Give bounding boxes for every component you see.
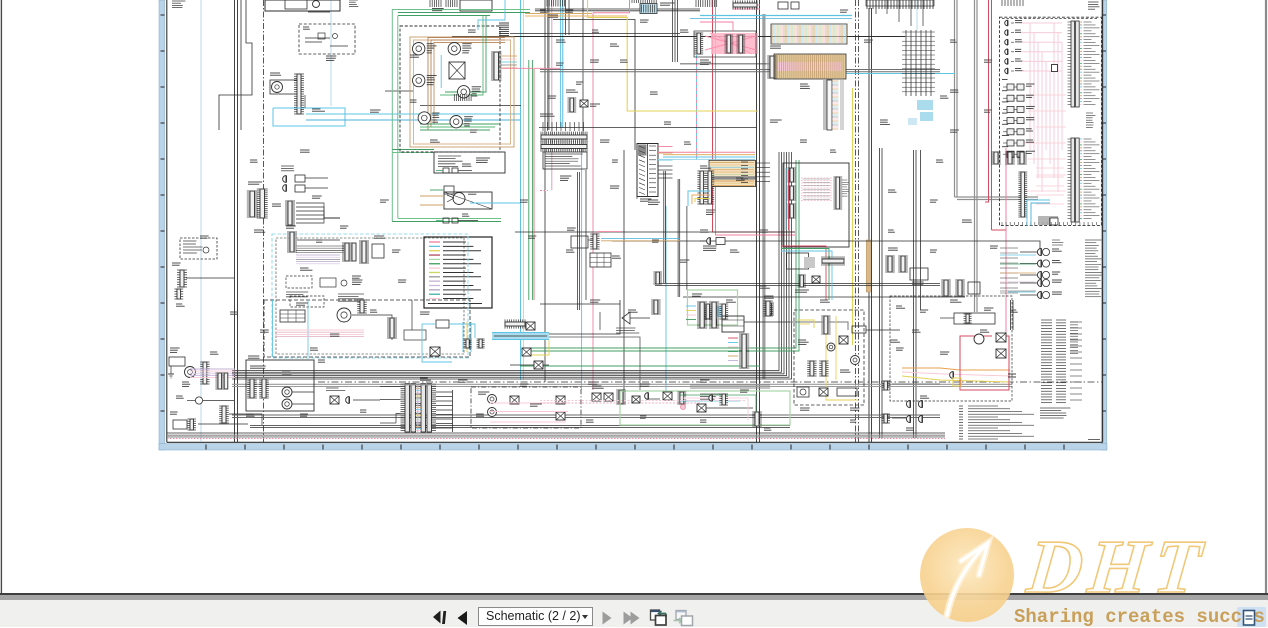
wire <box>881 148 883 438</box>
power wire red vertical pair <box>985 0 989 202</box>
wire label text <box>610 44 619 46</box>
wire label text <box>684 142 691 144</box>
wire label text <box>640 416 646 418</box>
breaker box with X <box>420 192 520 209</box>
yellow riser cluster parts <box>566 90 600 112</box>
wire label text <box>1002 135 1009 137</box>
green options enclosure <box>620 391 790 425</box>
connector CN1a <box>247 191 258 217</box>
wire vertical <box>565 0 567 35</box>
wire label text <box>272 204 281 206</box>
wire label text <box>556 40 566 42</box>
right toolbar icon highlighted <box>1237 607 1266 627</box>
wire label text <box>800 140 807 142</box>
cyan feed wire 2 <box>690 18 852 20</box>
bundle rows <box>296 246 344 253</box>
colored bundle to tan block <box>658 152 755 159</box>
yellow cyan channel <box>463 322 471 352</box>
sheet edge band left <box>159 0 165 450</box>
wire label text <box>312 109 325 111</box>
injector plug <box>1037 271 1041 278</box>
ecm pink lower traces <box>1036 168 1064 204</box>
xb <box>996 349 1006 358</box>
diode pack D1 <box>281 166 328 192</box>
wire list table extra <box>1070 322 1078 353</box>
wire label text <box>472 87 481 91</box>
connector J28 <box>733 0 757 9</box>
sensor cluster S1 <box>270 73 298 94</box>
wire label text <box>560 176 571 180</box>
wire label text <box>730 250 739 252</box>
big connector pair CN1 <box>247 182 268 218</box>
connector J4 <box>177 270 187 287</box>
wire label text <box>912 330 921 332</box>
wire label text <box>612 160 618 162</box>
wire label text <box>912 282 924 284</box>
relay plug <box>1005 30 1008 36</box>
bottom toolbar <box>0 600 1268 627</box>
engine ECM enclosure <box>1000 17 1102 225</box>
wire label text <box>360 410 366 412</box>
drawing frame right <box>1102 0 1104 442</box>
thermostat sym <box>600 312 650 333</box>
next page button disabled <box>603 612 612 625</box>
wire label text <box>984 60 992 62</box>
wire label text <box>468 30 476 32</box>
options enclosure bottom right dashed <box>890 296 1012 401</box>
wire label text <box>840 370 850 372</box>
floor harness cyan edge <box>272 300 274 357</box>
column connector CC1 <box>637 144 658 202</box>
connector J54 <box>819 361 828 376</box>
top right comb <box>696 0 717 7</box>
wire label text <box>1052 292 1062 294</box>
top edge comb cluster A <box>547 0 565 17</box>
wire label text <box>592 30 599 32</box>
wire label text <box>820 300 830 302</box>
wire <box>871 8 873 442</box>
mini table <box>590 253 611 267</box>
wire label text <box>566 10 573 12</box>
wire label text <box>648 200 660 204</box>
relay plug <box>1005 39 1008 45</box>
connector J2 <box>294 74 304 114</box>
next view icon disabled <box>674 611 693 626</box>
ribbon 1 <box>771 24 847 44</box>
top edge comb cluster B <box>632 0 674 5</box>
drawing frame bottom <box>167 441 1103 443</box>
wire label text <box>540 114 555 116</box>
relay plug <box>1005 59 1008 65</box>
connector J37 <box>941 280 951 296</box>
sheet zone ticks right <box>1102 15 1106 411</box>
wire label text <box>432 113 439 117</box>
bottom rail dotted pink <box>167 438 945 440</box>
gray band under boundary <box>232 383 1012 385</box>
long wire y105 <box>420 105 521 107</box>
wire vertical <box>623 150 625 391</box>
plug P2 <box>283 185 287 192</box>
gauge G <box>418 112 430 124</box>
wire label text <box>1002 123 1008 125</box>
wire <box>237 0 239 442</box>
green module internals <box>692 294 728 319</box>
two-pin component row <box>436 164 472 173</box>
bottom center components <box>592 386 613 401</box>
power wire red 2 <box>991 0 993 230</box>
wire label text <box>1052 272 1060 274</box>
wire <box>219 0 252 130</box>
cab module enclosure dashed cyan <box>272 234 468 358</box>
wire label text <box>640 199 651 201</box>
horn H2 <box>282 399 292 409</box>
connector J62 <box>885 256 895 272</box>
xb <box>526 322 535 330</box>
connector J53 <box>807 361 816 376</box>
monitor module enclosure <box>794 310 864 405</box>
wire label text <box>940 96 948 98</box>
wire label text <box>370 110 381 112</box>
wire label text <box>652 240 659 242</box>
wire label text <box>592 386 604 388</box>
colored wire sweep right <box>902 368 1010 382</box>
small top rects <box>778 2 799 9</box>
wire label text <box>984 308 993 310</box>
t <box>842 180 850 196</box>
wire <box>304 95 306 108</box>
wire label text <box>850 408 859 410</box>
connector J10 <box>285 201 295 225</box>
connector J17 <box>259 379 269 398</box>
wire label text <box>556 63 564 65</box>
connector J32 <box>1018 172 1027 217</box>
connector J22b <box>705 171 714 204</box>
black trio top <box>673 0 678 62</box>
wire label text <box>182 382 190 386</box>
floor harness enclosure <box>264 300 470 357</box>
pink top elbow <box>593 0 630 13</box>
t <box>616 328 639 333</box>
connector J45 <box>464 339 472 348</box>
gauge module dashed border <box>400 26 500 152</box>
wire vertical pair H <box>756 0 758 442</box>
wire label text <box>176 304 185 306</box>
relay plug <box>1005 49 1008 55</box>
legend notes bottom left of right panel <box>959 406 1034 439</box>
cyan feed wire <box>700 15 852 17</box>
keypad combs left <box>787 168 796 218</box>
wire <box>411 300 413 330</box>
plug <box>709 395 713 401</box>
wire label text <box>588 382 598 384</box>
wire label text <box>420 312 430 314</box>
ecm labels <box>1085 240 1103 297</box>
ecm mid text <box>1086 113 1095 127</box>
wire label text <box>736 178 745 180</box>
wire label text <box>462 51 469 53</box>
bottom bus <box>232 417 940 419</box>
window left border <box>0 0 2 594</box>
wire label text <box>1015 21 1022 23</box>
lamp bank right <box>1000 255 1036 291</box>
wire label text <box>1026 129 1033 131</box>
wire <box>915 150 917 438</box>
hot pink junction cluster <box>694 31 758 57</box>
riser pair B <box>678 179 680 297</box>
wires <box>352 315 392 340</box>
wire label text <box>620 60 628 62</box>
plug P3 <box>346 397 350 404</box>
wire label text <box>680 30 688 32</box>
gray link <box>790 322 848 330</box>
wire label text <box>1026 151 1035 153</box>
wire label text <box>312 196 322 198</box>
connector J47 <box>505 319 525 328</box>
wire label text <box>700 166 711 168</box>
wire label text <box>374 236 385 238</box>
wire label text <box>1002 101 1008 103</box>
wire label text <box>1002 90 1007 92</box>
comb pair left of block <box>697 171 714 204</box>
long wire pair <box>655 285 940 287</box>
more labels sprinkle <box>210 10 1018 430</box>
wire label text <box>200 236 209 238</box>
wire label text <box>760 286 770 288</box>
connector J51 <box>763 301 773 316</box>
power distribution box PD1 <box>246 360 314 411</box>
lavender rows <box>190 369 235 377</box>
wire label text <box>930 200 938 202</box>
yellow wiring in module <box>797 316 858 400</box>
wire label text <box>800 408 810 410</box>
cab module inner dash <box>276 238 464 354</box>
wire label text <box>1015 69 1024 71</box>
green signal vertical O <box>528 60 530 300</box>
gray bus vertical L <box>954 0 956 197</box>
connector J24b <box>651 300 660 314</box>
pink loop bottom right <box>950 333 1009 390</box>
harness dash-dot vertical G <box>858 0 860 442</box>
brown feed bundle <box>428 38 505 131</box>
wire label text <box>300 150 310 152</box>
connector J21b <box>697 171 706 204</box>
option lamp2 <box>488 408 497 417</box>
tan block tails right <box>756 163 771 181</box>
wire label text <box>520 384 528 386</box>
wire <box>759 0 761 442</box>
wire label text <box>950 130 959 132</box>
bottom bus <box>232 414 940 416</box>
wire label text <box>664 122 671 124</box>
connector block CN2 <box>359 236 385 263</box>
cyan red loop in keypad <box>786 168 789 230</box>
xb <box>663 392 672 400</box>
long wire <box>539 127 757 129</box>
black elbow pair top <box>535 8 700 10</box>
dash panel text block <box>543 152 587 169</box>
lamp cluster L1 <box>430 186 479 205</box>
wire label text <box>176 396 184 398</box>
relay plug <box>1005 68 1008 74</box>
tan wire block <box>709 160 756 186</box>
connector J35 <box>1005 152 1015 164</box>
floor harness cyan edge right <box>307 300 309 357</box>
xb <box>556 412 565 420</box>
watermark slogan <box>1014 606 1265 628</box>
sheet number text <box>1088 439 1100 441</box>
wire label text <box>432 9 444 11</box>
top margin combs <box>430 0 457 11</box>
red riser right <box>533 69 535 300</box>
previous page button <box>458 611 468 625</box>
wire vertical <box>585 170 587 300</box>
dash-dot options enclosure <box>471 387 581 428</box>
wire label text <box>700 60 711 64</box>
wire label text <box>528 236 536 238</box>
mid cluster labels <box>176 40 993 410</box>
ecm upper pin header <box>1068 21 1100 107</box>
wire label text <box>310 348 318 350</box>
plug <box>713 319 717 325</box>
connector J9 <box>219 406 229 423</box>
wire label text <box>1026 95 1034 97</box>
relay plug <box>1005 20 1008 26</box>
wire <box>229 414 262 425</box>
wire label text <box>880 120 890 124</box>
wire label text <box>1010 310 1018 312</box>
mid right connector cluster <box>885 248 928 284</box>
wire label text <box>370 310 377 312</box>
wire label text <box>316 240 322 242</box>
ecm D plug column <box>1005 20 1024 74</box>
wire label text <box>427 83 434 85</box>
page selector combobox <box>478 607 593 626</box>
connector J14 <box>357 300 367 313</box>
long wire <box>510 33 680 35</box>
wire label text <box>760 230 768 232</box>
wire label text <box>990 246 998 248</box>
orange top wire <box>525 15 627 17</box>
long wire <box>612 241 1040 250</box>
t <box>545 154 583 166</box>
wire vertical <box>582 0 584 152</box>
wire label text <box>520 200 528 202</box>
bottom bus <box>250 425 790 427</box>
wire <box>540 303 620 305</box>
band connectors <box>505 319 535 330</box>
wire label text <box>548 96 556 98</box>
tan rows <box>501 56 517 68</box>
xb <box>556 396 565 404</box>
connector J64 <box>719 394 728 405</box>
relay K1 contacts <box>303 27 348 60</box>
wire vertical <box>544 0 546 382</box>
black elbow pair top 2 <box>535 10 700 12</box>
wire label text <box>410 55 419 57</box>
toolbar separator gray <box>0 595 1268 600</box>
relay small <box>764 296 774 315</box>
grid hairline vertical E <box>916 0 918 30</box>
wire label text <box>950 300 961 302</box>
cyan signal vertical S <box>665 206 667 391</box>
wire label text <box>464 124 470 126</box>
pink vertical center <box>551 0 553 190</box>
monitor parts <box>797 336 860 397</box>
connector J3 <box>491 52 502 80</box>
wire label text <box>340 226 348 228</box>
long box right <box>940 313 995 324</box>
connector J56 <box>787 186 796 200</box>
wire label text <box>410 100 417 102</box>
connector J52 <box>821 316 830 334</box>
wire list table <box>1041 320 1082 403</box>
wire label text <box>1026 118 1034 120</box>
left cluster micro wires <box>296 255 340 264</box>
beacon sym <box>326 388 380 404</box>
window right border <box>1265 0 1267 594</box>
module bottom box <box>434 152 505 173</box>
watermark DHT text <box>1023 524 1211 611</box>
wire label text <box>700 380 710 382</box>
ecm labels2 <box>1052 240 1063 245</box>
speaker pair right <box>892 384 940 423</box>
wire label text <box>692 294 702 296</box>
pink cross wires <box>700 5 760 31</box>
cyan signal vertical N2 <box>523 0 525 380</box>
xb <box>839 336 848 344</box>
option lamp1 <box>488 395 497 404</box>
wire label text <box>260 330 269 332</box>
red to pink elbow <box>992 230 1007 238</box>
connector block CB1 <box>180 238 217 259</box>
xb <box>697 404 706 412</box>
gauge G <box>450 116 462 128</box>
wire label text <box>470 130 477 132</box>
sheet zone ticks left <box>161 15 165 411</box>
wire label text <box>940 352 949 354</box>
connector J12 <box>342 243 356 261</box>
gauge sym <box>827 343 835 351</box>
fuel sender symbol <box>700 238 725 251</box>
wire label text <box>586 420 594 422</box>
bottom rail gray band <box>167 436 945 438</box>
wire label text <box>566 90 578 92</box>
fan-out harness FH1 <box>285 201 340 225</box>
wire label text <box>1015 59 1023 61</box>
ecm tiny box sym <box>1052 65 1058 72</box>
xb <box>819 388 828 396</box>
margin text <box>172 1 185 8</box>
last page button disabled <box>624 612 640 625</box>
signal wire pink vertical <box>1005 148 1007 336</box>
connector J8 <box>187 419 196 430</box>
wire label text <box>984 110 992 112</box>
xb <box>580 100 588 107</box>
spk <box>918 415 922 422</box>
yellow riser <box>588 0 759 111</box>
connector J24 <box>653 272 662 284</box>
wire label text <box>286 226 296 228</box>
wire label text <box>680 260 689 262</box>
gauge G <box>413 74 425 86</box>
t <box>286 292 308 297</box>
t <box>338 294 364 301</box>
wire label text <box>270 73 281 75</box>
dash panel connector rows <box>541 122 587 152</box>
keypad module box <box>783 163 849 247</box>
wire label text <box>888 248 898 250</box>
green options parts <box>645 392 721 404</box>
